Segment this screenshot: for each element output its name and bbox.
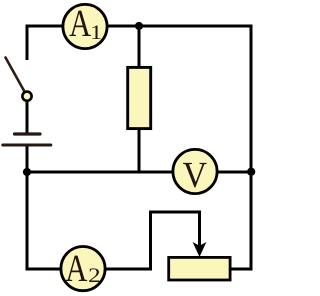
svg-text:1: 1 — [90, 22, 102, 44]
voltmeter V — [173, 149, 217, 193]
wire resistor branch vertical — [138, 26, 141, 172]
rheostat (variable resistor) — [169, 257, 230, 280]
svg-text:A: A — [69, 3, 91, 45]
wire: battery down, bottom rail, wiper loop with corners — [27, 146, 200, 269]
svg-text:A: A — [65, 248, 87, 290]
svg-text:V: V — [183, 154, 208, 195]
wire middle horizontal — [27, 171, 251, 174]
ammeter A2 — [61, 247, 105, 291]
node junction right (voltmeter wire) — [247, 168, 255, 176]
wiper arrowhead — [193, 242, 207, 257]
resistor R — [128, 67, 151, 128]
switch pivot — [22, 92, 31, 101]
battery short plate — [15, 132, 41, 135]
wire: switch contact up, top rail, right rail, to rheostat right lead — [27, 26, 251, 269]
svg-text:2: 2 — [88, 265, 101, 287]
ammeter A1 — [63, 4, 107, 48]
battery long plate — [3, 144, 51, 147]
switch lever — [6, 58, 26, 93]
node junction left (battery branch) — [23, 168, 31, 176]
wire switch pivot to battery — [26, 100, 29, 133]
node junction top (resistor branch) — [135, 22, 143, 30]
